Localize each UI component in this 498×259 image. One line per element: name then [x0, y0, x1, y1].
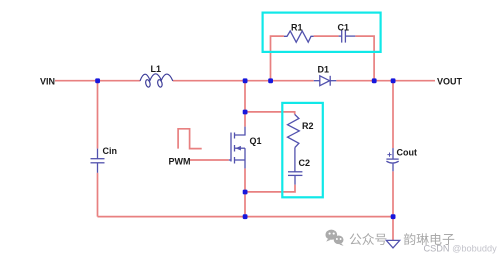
inductor L1 — [140, 74, 173, 88]
wire L1 to D1 anode — [173, 80, 314, 82]
wire D1 cathode to VOUT — [336, 80, 435, 82]
svg-text:VIN: VIN — [40, 76, 55, 86]
wire RC filter left drop — [271, 36, 284, 81]
wire R1 to C1 link — [314, 35, 339, 37]
watermark WeChat icon — [326, 230, 344, 246]
svg-text:PWM: PWM — [169, 156, 191, 166]
transistor Q1 (N-MOSFET) — [229, 127, 245, 169]
node RC filter left junction — [268, 78, 273, 83]
svg-text:VOUT: VOUT — [437, 76, 463, 86]
ground symbol — [386, 240, 399, 248]
svg-text:Cin: Cin — [103, 146, 118, 156]
wire Cout top drop — [392, 81, 394, 148]
node snubber bottom junction — [243, 190, 248, 195]
capacitor C2 — [288, 172, 302, 185]
svg-text:R2: R2 — [302, 121, 314, 131]
svg-text:R1: R1 — [291, 23, 303, 33]
node Cout bottom / ground junction — [391, 214, 396, 219]
svg-text:Cout: Cout — [397, 148, 418, 158]
svg-text:CSDN @bobuddy: CSDN @bobuddy — [424, 244, 498, 254]
node VIN/Cin junction — [95, 78, 100, 83]
svg-text:L1: L1 — [151, 64, 162, 74]
wire Q1 source drop — [244, 168, 246, 216]
highlight box RC snubber (R2 C2) — [282, 103, 323, 197]
wire Q1 drain drop — [244, 81, 246, 127]
wire PWM to gate — [190, 159, 229, 161]
wire Cin bottom drop — [97, 173, 99, 217]
svg-text:C2: C2 — [299, 158, 311, 168]
wire bottom ground rail — [98, 216, 394, 218]
wire snubber top tap — [245, 112, 295, 115]
wire C1 to right drop — [355, 36, 374, 81]
node Cout top junction — [391, 78, 396, 83]
svg-text:D1: D1 — [318, 65, 330, 75]
capacitor Cout (polarized) — [386, 148, 398, 171]
node Q1 drain junction — [243, 78, 248, 83]
node snubber top junction — [243, 110, 248, 115]
resistor R1 — [284, 31, 314, 42]
wire snubber bottom tap — [245, 185, 295, 192]
capacitor Cin — [91, 149, 105, 173]
resistor R2 — [288, 114, 300, 147]
wire Cin top drop — [97, 81, 99, 149]
diode D1 — [314, 76, 337, 86]
node RC filter right junction — [372, 78, 377, 83]
highlight box RC feedforward (R1 C1) — [263, 13, 381, 52]
watermark text 韵琳电子 — [404, 233, 454, 245]
svg-text:C1: C1 — [338, 23, 350, 33]
PWM pulse waveform symbol — [178, 129, 202, 149]
node Q1 source / bottom rail junction — [243, 214, 248, 219]
capacitor C1 — [339, 30, 356, 43]
wire R2 to C2 lead — [294, 148, 296, 172]
wire VIN to L1 — [55, 80, 140, 82]
watermark text 公众号 — [350, 233, 387, 245]
svg-text:Q1: Q1 — [250, 136, 262, 146]
wire Cout to ground — [392, 171, 394, 240]
